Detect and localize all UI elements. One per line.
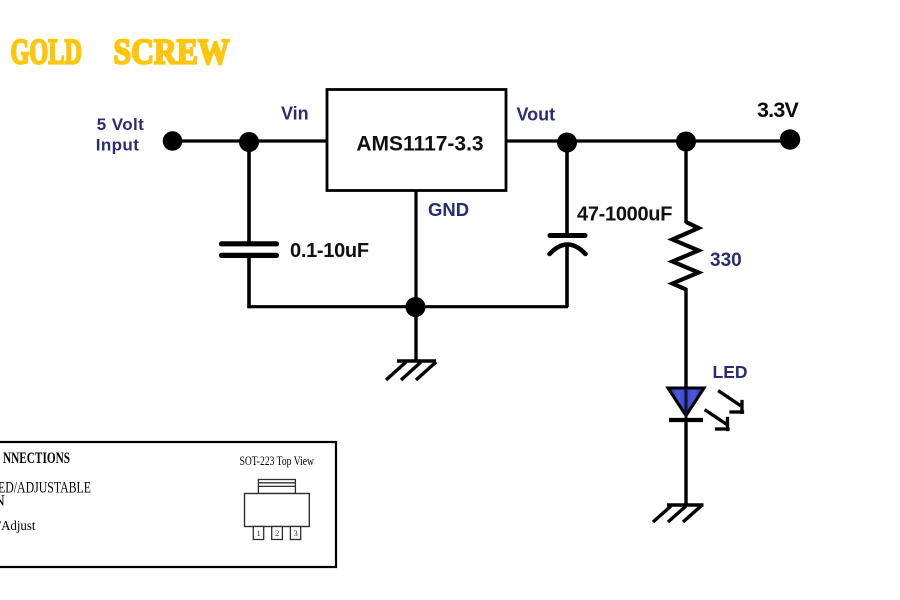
junction node: ground rail	[406, 297, 426, 317]
net label: 5 Volt Input	[96, 115, 144, 155]
pin connections info box	[0, 442, 336, 567]
svg-text:/Adjust: /Adjust	[0, 518, 36, 533]
ground symbol (LED)	[653, 505, 704, 522]
svg-text:3.3V: 3.3V	[757, 98, 799, 122]
svg-text:Vin: Vin	[281, 104, 309, 124]
svg-text:3: 3	[293, 528, 297, 538]
svg-text:Vout: Vout	[517, 105, 556, 125]
LED emission arrow 1	[720, 392, 743, 413]
wire: junction down to C1	[247, 142, 251, 242]
svg-text:GOLD: GOLD	[11, 32, 83, 72]
svg-text:2: 2	[275, 528, 279, 538]
wire: regulator GND pin down	[414, 190, 417, 306]
wire: Vout junction down to C2	[565, 142, 569, 234]
svg-text:0.1-10uF: 0.1-10uF	[290, 240, 369, 262]
wire: regulator Vout to 3.3V terminal	[506, 139, 790, 142]
SOT-223 pin 1	[253, 527, 263, 540]
svg-text:SCREW: SCREW	[114, 32, 230, 72]
output terminal node 3.3V	[780, 129, 800, 149]
SOT-223 package tab	[258, 480, 295, 494]
regulator U1 AMS1117-3.3	[327, 90, 506, 191]
wire: node to ground symbol	[414, 306, 417, 361]
wire: C2 to ground rail	[565, 245, 569, 307]
capacitor C2 47-1000uF (polarized)	[550, 236, 586, 255]
capacitor C1 0.1-10uF	[222, 244, 277, 256]
svg-text:5 Volt: 5 Volt	[97, 115, 144, 134]
resistor R1 zigzag	[673, 222, 699, 290]
wire: ground rail (C1 to C2)	[247, 305, 568, 308]
svg-text:Input: Input	[96, 136, 140, 155]
svg-text:GND: GND	[428, 199, 469, 220]
junction node: R1 branch	[676, 132, 696, 152]
wire: input to regulator Vin	[172, 139, 327, 142]
ground symbol (main)	[386, 361, 436, 380]
svg-text:NNECTIONS: NNECTIONS	[3, 450, 70, 467]
wire: resistor to LED	[684, 288, 687, 389]
SOT-223 pin 2	[272, 527, 283, 540]
LED emission arrow 2	[706, 411, 728, 430]
SOT-223 pin 3	[290, 527, 300, 540]
svg-text:330: 330	[710, 250, 742, 271]
SOT-223 package body	[245, 494, 310, 527]
svg-text:N: N	[0, 493, 6, 510]
junction node: Vout / C2	[557, 133, 577, 153]
junction node: Vin / C1	[239, 132, 259, 152]
svg-text:47-1000uF: 47-1000uF	[577, 204, 672, 226]
wire: R1 branch down to resistor	[684, 141, 687, 223]
svg-text:ED/ADJUSTABLE: ED/ADJUSTABLE	[0, 479, 91, 496]
logo GOLD SCREW	[11, 32, 230, 72]
wire: C1 to ground rail	[247, 257, 251, 308]
wire: LED to ground	[684, 420, 687, 505]
svg-text:LED: LED	[713, 362, 748, 382]
svg-text:SOT-223 Top View: SOT-223 Top View	[240, 453, 315, 468]
svg-text:1: 1	[256, 528, 260, 538]
svg-text:AMS1117-3.3: AMS1117-3.3	[356, 133, 483, 156]
input terminal node	[163, 131, 183, 151]
LED D1 (blue)	[668, 388, 704, 420]
